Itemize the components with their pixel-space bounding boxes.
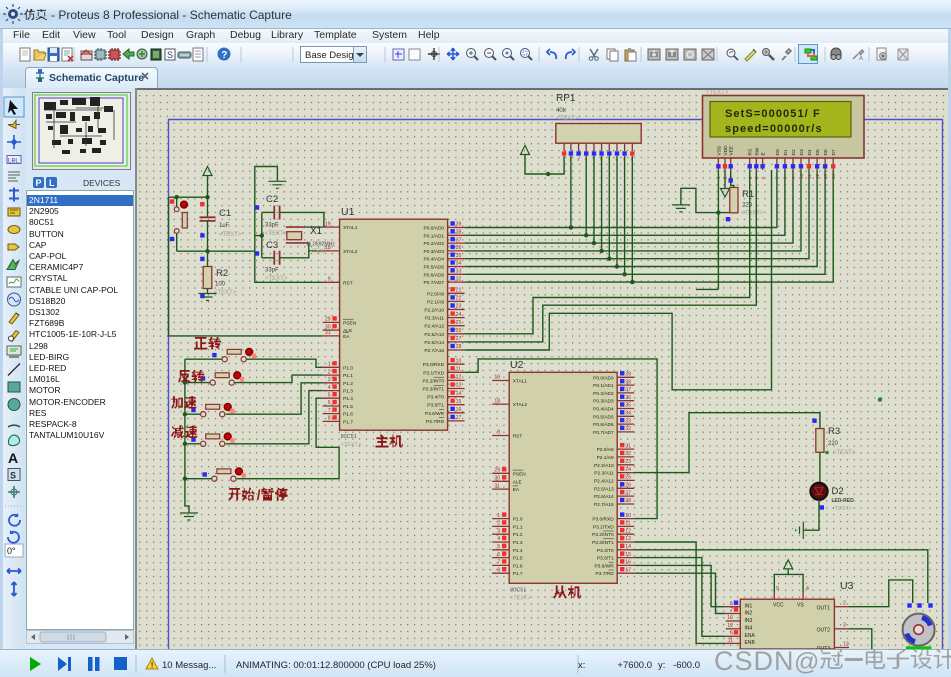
junction RP1-P0.2 <box>592 241 596 245</box>
svg-text:13: 13 <box>456 383 462 389</box>
svg-text:P0.3/AD3: P0.3/AD3 <box>424 249 445 255</box>
svg-text:<TEXT>: <TEXT> <box>741 211 764 217</box>
wire to IN2 <box>634 573 726 613</box>
wire LCD ground to R1 <box>681 188 734 212</box>
junction <box>205 249 209 253</box>
junction RP1-P0.3 <box>599 249 603 253</box>
svg-text:5: 5 <box>328 392 331 398</box>
svg-text:1: 1 <box>328 362 331 368</box>
svg-text:6: 6 <box>730 631 733 637</box>
svg-text:P0.0/AD0: P0.0/AD0 <box>593 375 614 381</box>
wire RST net <box>255 251 323 282</box>
svg-text:EA: EA <box>513 487 520 493</box>
svg-text:33: 33 <box>456 269 462 275</box>
svg-text:RS: RS <box>748 149 754 156</box>
ground (R2) <box>199 294 217 301</box>
capacitor C3 <box>274 251 279 265</box>
button KEY 正转 <box>222 357 227 362</box>
svg-text:33pF: 33pF <box>265 223 279 229</box>
wire to motor right <box>634 550 928 603</box>
svg-text:D0: D0 <box>775 149 781 155</box>
svg-text:10: 10 <box>799 173 804 179</box>
power-down terminal VDD <box>721 189 730 198</box>
wire <box>185 478 212 480</box>
svg-text:3: 3 <box>497 528 500 534</box>
U1 pins right P0 <box>448 227 465 229</box>
svg-text:PSEN: PSEN <box>343 320 357 326</box>
wire <box>185 443 201 445</box>
U3 pins right <box>834 606 849 608</box>
U3 pins left <box>726 606 741 608</box>
junction <box>183 477 187 481</box>
svg-text:28: 28 <box>625 498 631 504</box>
svg-text:A: A <box>8 450 18 466</box>
wire VEE to R1 <box>731 170 734 188</box>
svg-text:x:: x: <box>578 660 585 671</box>
svg-text:IN4: IN4 <box>745 626 753 632</box>
svg-text:P0.1/AD1: P0.1/AD1 <box>424 233 445 239</box>
button KEY 减速 <box>201 441 206 446</box>
svg-text:11: 11 <box>807 174 812 179</box>
transistor U1 pins left <box>323 226 340 228</box>
svg-text:3: 3 <box>843 623 846 629</box>
svg-text:7: 7 <box>730 608 733 614</box>
svg-text:P1.2: P1.2 <box>343 381 353 387</box>
svg-text:8: 8 <box>328 416 331 422</box>
junction <box>260 233 264 237</box>
svg-text:+7600.0: +7600.0 <box>617 660 652 671</box>
wire <box>262 257 275 259</box>
svg-text:P2.2/A10: P2.2/A10 <box>594 463 614 469</box>
wire <box>255 235 262 237</box>
svg-text:P3.6/WR: P3.6/WR <box>594 563 614 569</box>
svg-text:VDD: VDD <box>723 145 729 156</box>
svg-text:C1: C1 <box>219 208 231 219</box>
svg-text:10: 10 <box>727 615 733 621</box>
svg-text:38: 38 <box>456 230 462 236</box>
svg-text:P1.5: P1.5 <box>513 556 523 562</box>
svg-text:P1.7: P1.7 <box>343 419 353 425</box>
svg-text:P2.4/A12: P2.4/A12 <box>594 478 614 484</box>
svg-text:P3.3/INT1: P3.3/INT1 <box>422 387 444 393</box>
svg-text:P2.0/A8: P2.0/A8 <box>427 291 444 297</box>
wire RP1 pin to P0.5 <box>616 156 618 267</box>
svg-text:P1.0: P1.0 <box>343 365 353 371</box>
svg-text:6: 6 <box>328 400 331 406</box>
junction RP1-P0.0 <box>569 225 573 229</box>
svg-text:P1.0: P1.0 <box>513 517 523 523</box>
svg-text:11: 11 <box>456 367 461 373</box>
svg-text:P2.4/A12: P2.4/A12 <box>424 324 444 330</box>
wire VCC down to EA pin <box>169 197 323 336</box>
wire RST rail <box>177 250 255 252</box>
wire VSS stub left <box>696 288 719 290</box>
ground (crystal caps) <box>268 181 286 188</box>
svg-text:C3: C3 <box>266 240 278 251</box>
svg-text:32: 32 <box>456 276 462 282</box>
wire <box>176 197 178 207</box>
svg-text:P3.6/WR: P3.6/WR <box>425 411 445 417</box>
svg-text:P0.5/AD5: P0.5/AD5 <box>593 414 614 420</box>
svg-text:13: 13 <box>625 536 631 542</box>
junction <box>183 380 187 384</box>
junction RP1-P0.5 <box>615 264 619 268</box>
wire RP1 pin to P0.4 <box>608 156 610 259</box>
svg-text:P3.5/T1: P3.5/T1 <box>597 556 614 562</box>
wire RP1 pin to P0.7 <box>631 156 633 282</box>
svg-text:- Proteus 8 Professional - Sch: - Proteus 8 Professional - Schematic Cap… <box>51 8 292 22</box>
ground (buttons) <box>180 513 198 520</box>
svg-text:EA: EA <box>343 334 350 340</box>
svg-text:11.0592MHz: 11.0592MHz <box>306 242 335 248</box>
svg-text:80C51: 80C51 <box>341 434 357 440</box>
wire to P1.2 <box>226 383 323 414</box>
junction RP1-P0.7 <box>630 280 634 284</box>
svg-text:P0.4/AD4: P0.4/AD4 <box>593 407 614 413</box>
svg-text:R1: R1 <box>742 189 754 200</box>
svg-text:29: 29 <box>325 317 331 323</box>
ground (D2, rotated) <box>796 522 804 539</box>
wire to R3 <box>634 413 820 473</box>
svg-text:P1.3: P1.3 <box>513 540 523 546</box>
wire P0.6 to LCD D6 <box>465 170 825 274</box>
svg-text:<TEXT>: <TEXT> <box>556 116 579 122</box>
svg-text:P0.2/AD2: P0.2/AD2 <box>424 241 445 247</box>
svg-text:25: 25 <box>456 320 462 326</box>
svg-text:S: S <box>167 50 173 60</box>
op-amp U1 80C51 MCU body <box>340 219 448 430</box>
svg-text:PSEN: PSEN <box>513 471 527 477</box>
svg-text:11: 11 <box>728 638 733 644</box>
svg-text:<TEXT>: <TEXT> <box>832 506 852 512</box>
wire to ENB <box>634 542 726 643</box>
label 反转 <box>178 370 191 383</box>
button KEY 反转 <box>210 380 215 385</box>
svg-text:P1.6: P1.6 <box>513 563 523 569</box>
svg-text:22: 22 <box>625 451 631 457</box>
svg-text:P1.4: P1.4 <box>513 548 523 554</box>
svg-text:11: 11 <box>625 521 630 527</box>
svg-text:1: 1 <box>497 513 500 519</box>
svg-text:LED-RED: LED-RED <box>832 498 855 504</box>
svg-text:P2.3/A11: P2.3/A11 <box>425 316 445 322</box>
svg-text:LBL: LBL <box>8 159 19 165</box>
crystal X1 <box>286 227 309 243</box>
svg-text:4: 4 <box>806 586 809 592</box>
svg-text:ANIMATING: 00:01:12.800000 (CP: ANIMATING: 00:01:12.800000 (CPU load 25%… <box>236 660 436 671</box>
svg-text:S: S <box>10 471 16 481</box>
svg-text:2: 2 <box>328 369 331 375</box>
svg-text:13: 13 <box>823 173 828 179</box>
svg-text:39: 39 <box>625 372 631 378</box>
wire RP1 pin to P0.6 <box>624 156 626 274</box>
svg-text:P2.7/A15: P2.7/A15 <box>594 502 614 508</box>
svg-text:?: ? <box>221 50 227 61</box>
svg-text:D2: D2 <box>832 486 844 497</box>
wire to P1.1 <box>235 375 323 383</box>
resistor R3 <box>816 429 824 453</box>
wire cap ground <box>255 167 278 252</box>
svg-text:16: 16 <box>456 407 462 413</box>
svg-text:4: 4 <box>328 385 331 391</box>
wire <box>207 221 209 251</box>
svg-text:6: 6 <box>497 552 500 558</box>
svg-text:3: 3 <box>328 377 331 383</box>
svg-text:33: 33 <box>625 418 631 424</box>
svg-text:P2.2/A10: P2.2/A10 <box>424 308 444 314</box>
svg-text:7: 7 <box>497 560 500 566</box>
svg-text:2: 2 <box>843 601 846 607</box>
wire C2-C3 common <box>261 212 263 257</box>
wire VCC rail <box>169 196 208 198</box>
svg-text:21: 21 <box>456 288 462 294</box>
junction <box>175 195 179 199</box>
wire P2.5 to LCD RS <box>465 170 750 334</box>
svg-text:P0.1/AD1: P0.1/AD1 <box>593 383 614 389</box>
svg-text:D5: D5 <box>815 149 821 155</box>
svg-text:SetS=000051/ F: SetS=000051/ F <box>725 108 821 120</box>
svg-text:P3.3/INT1: P3.3/INT1 <box>592 540 614 546</box>
svg-text:RP1: RP1 <box>556 93 576 104</box>
svg-text:VSS: VSS <box>716 146 722 156</box>
svg-text:31: 31 <box>325 330 331 336</box>
svg-text:27: 27 <box>625 490 631 496</box>
svg-text:VS: VS <box>797 603 804 609</box>
svg-text:<TEXT>: <TEXT> <box>510 595 530 601</box>
svg-text:24: 24 <box>625 467 631 473</box>
wire <box>185 382 210 384</box>
button KEY 加速 <box>201 412 206 417</box>
capacitor C2 <box>274 206 279 220</box>
svg-text:P2.5/A13: P2.5/A13 <box>594 486 614 492</box>
svg-text:P3.1/TXD: P3.1/TXD <box>423 370 444 376</box>
resistor pack RP1 RESPACK-8 <box>556 124 641 144</box>
svg-text:VEE: VEE <box>729 146 735 156</box>
svg-text:OUT1: OUT1 <box>817 606 831 612</box>
svg-text:D6: D6 <box>823 149 829 155</box>
svg-text:220: 220 <box>828 441 839 447</box>
svg-text:P2.6/A14: P2.6/A14 <box>424 340 444 346</box>
svg-text:14: 14 <box>831 173 836 179</box>
wire RP1 pin to P0.2 <box>593 156 595 243</box>
svg-text:ENB: ENB <box>745 640 756 646</box>
svg-text:P0.7/AD7: P0.7/AD7 <box>593 430 614 436</box>
svg-text:22: 22 <box>456 296 462 302</box>
svg-text:7: 7 <box>328 408 331 414</box>
svg-text:@: @ <box>794 648 819 676</box>
U2 pins right P2 <box>617 448 634 450</box>
svg-text:XTAL2: XTAL2 <box>513 402 528 408</box>
svg-text:27: 27 <box>456 336 462 342</box>
svg-text:XTAL1: XTAL1 <box>343 225 358 231</box>
svg-text:P3.7/RD: P3.7/RD <box>426 419 445 425</box>
svg-text:E: E <box>761 152 767 155</box>
svg-text:XTAL2: XTAL2 <box>343 249 358 255</box>
svg-text:P: P <box>36 178 42 188</box>
U2 pins left <box>492 380 509 382</box>
wire <box>185 413 201 415</box>
svg-text:37: 37 <box>625 387 631 393</box>
svg-text:Schematic Capture: Schematic Capture <box>49 72 144 84</box>
wire button common bus <box>184 359 186 479</box>
wire to P1.0 <box>247 359 323 367</box>
svg-text:220: 220 <box>742 203 753 209</box>
svg-text:35: 35 <box>456 253 462 259</box>
wire TXD-RXD <box>465 359 657 519</box>
svg-text:<TEXT>: <TEXT> <box>833 450 856 456</box>
wire to P1.3 <box>226 391 323 444</box>
svg-text:P1.3: P1.3 <box>343 389 353 395</box>
wire to P1.4 <box>237 398 339 479</box>
svg-text:15: 15 <box>625 552 631 558</box>
wire VSS <box>717 170 719 289</box>
svg-text:33pF: 33pF <box>265 268 279 274</box>
label 加速 <box>171 396 183 409</box>
wire <box>207 176 209 198</box>
label 从机 <box>553 586 567 599</box>
wire to IN1 <box>634 565 726 606</box>
svg-text:13: 13 <box>843 641 849 647</box>
svg-text:<TEXT>: <TEXT> <box>341 442 361 448</box>
svg-text:14: 14 <box>456 391 462 397</box>
svg-text:10 Messag...: 10 Messag... <box>162 660 216 671</box>
LED D2 LED-RED <box>810 483 827 500</box>
svg-text:P2.0/A8: P2.0/A8 <box>597 447 614 453</box>
svg-text:CSDN: CSDN <box>714 646 795 676</box>
junction VSS-ground <box>716 210 720 214</box>
svg-text:ENA: ENA <box>745 633 756 639</box>
svg-text:OUT3: OUT3 <box>817 646 831 649</box>
svg-text:P3.2/INT0: P3.2/INT0 <box>592 532 614 538</box>
stray junction dot <box>878 397 882 401</box>
svg-text:31: 31 <box>494 483 500 489</box>
svg-text:P1.4: P1.4 <box>343 396 353 402</box>
svg-text:XTAL1: XTAL1 <box>513 379 528 385</box>
svg-text:P0.2/AD2: P0.2/AD2 <box>593 391 614 397</box>
svg-text:36: 36 <box>456 245 462 251</box>
svg-text:34: 34 <box>456 261 462 267</box>
wire U3 VCC rail <box>774 574 803 592</box>
svg-text:4: 4 <box>497 536 500 542</box>
svg-text:P1.6: P1.6 <box>343 412 353 418</box>
svg-text:ALE: ALE <box>513 479 522 485</box>
svg-text:25: 25 <box>625 475 631 481</box>
wire P2.6 to LCD RW <box>465 170 757 342</box>
svg-text:9: 9 <box>776 586 779 592</box>
svg-text:P0.4/AD4: P0.4/AD4 <box>424 257 445 263</box>
U2 pins right P3 <box>617 518 634 520</box>
svg-text:24: 24 <box>456 312 462 318</box>
svg-text:P1.1: P1.1 <box>513 524 523 530</box>
wire P0.0 to LCD D0 <box>465 170 777 228</box>
svg-text:19: 19 <box>325 221 331 227</box>
svg-text:IN3: IN3 <box>745 618 753 624</box>
svg-text:36: 36 <box>625 395 631 401</box>
junction RP1-P0.1 <box>584 233 588 237</box>
power terminal VCC (RP1) <box>521 146 530 155</box>
svg-text:P2.5/A13: P2.5/A13 <box>424 332 444 338</box>
svg-text:23: 23 <box>625 459 631 465</box>
svg-text:P3.5/T1: P3.5/T1 <box>427 403 444 409</box>
wire P0.4 to LCD D4 <box>465 170 809 259</box>
wire R3 to D2 <box>819 452 821 483</box>
wire P0.5 to LCD D5 <box>465 170 817 267</box>
svg-text:9: 9 <box>497 430 500 436</box>
svg-text:17: 17 <box>625 567 631 573</box>
svg-text:32: 32 <box>625 426 631 432</box>
svg-text:P1.7: P1.7 <box>513 571 523 577</box>
svg-text:P3.1/TXD: P3.1/TXD <box>593 524 614 530</box>
svg-text:100: 100 <box>215 282 226 288</box>
U1 pins right P3 <box>448 363 465 365</box>
svg-text:P2.6/A14: P2.6/A14 <box>594 494 614 500</box>
svg-text:IN2: IN2 <box>745 610 753 616</box>
svg-text:!: ! <box>151 661 154 670</box>
motor M (MOTOR-ENCODER) <box>903 614 935 646</box>
svg-text:P2.1/A9: P2.1/A9 <box>427 299 444 305</box>
svg-text:DEVICES: DEVICES <box>83 178 121 188</box>
wire <box>207 251 209 266</box>
junction <box>546 172 550 176</box>
wire <box>185 358 222 360</box>
svg-text:29: 29 <box>494 468 500 474</box>
svg-text:C2: C2 <box>266 194 278 205</box>
wire <box>724 170 726 189</box>
svg-text:P0.0/AD0: P0.0/AD0 <box>424 226 445 232</box>
svg-text:19: 19 <box>494 375 500 381</box>
svg-text:P0.7/AD7: P0.7/AD7 <box>424 280 445 286</box>
wire bus to ground <box>185 479 189 513</box>
button KEY 开始/暂停 <box>212 476 217 481</box>
svg-text:OUT2: OUT2 <box>817 628 831 634</box>
svg-text:40k: 40k <box>556 108 567 114</box>
wire P0.1 to LCD D1 <box>465 170 785 235</box>
svg-text:35: 35 <box>625 403 631 409</box>
svg-text:P1.5: P1.5 <box>343 404 353 410</box>
svg-text:30: 30 <box>494 476 500 482</box>
svg-text:<TEXT>: <TEXT> <box>265 231 288 237</box>
wire <box>787 569 789 575</box>
svg-text:P1.1: P1.1 <box>343 373 353 379</box>
svg-text:R2: R2 <box>216 268 228 279</box>
svg-text:RST: RST <box>513 434 523 440</box>
svg-text:10: 10 <box>625 513 631 519</box>
junction RP1-P0.4 <box>607 257 611 261</box>
wire P0.2 to LCD D2 <box>465 170 793 243</box>
svg-text:28: 28 <box>456 344 462 350</box>
wire to ENA <box>634 558 726 637</box>
sheet border <box>169 120 943 650</box>
label 正转 <box>194 337 207 350</box>
svg-text:14: 14 <box>625 544 631 550</box>
svg-text:P3.0/RXD: P3.0/RXD <box>592 517 614 523</box>
svg-text:U2: U2 <box>510 359 524 371</box>
svg-text:IN1: IN1 <box>745 604 753 610</box>
svg-text:P3.4/T0: P3.4/T0 <box>597 548 614 554</box>
svg-text:34: 34 <box>625 411 631 417</box>
svg-text:80C51: 80C51 <box>510 587 526 593</box>
svg-text:2: 2 <box>497 521 500 527</box>
svg-text:P1.2: P1.2 <box>513 532 523 538</box>
svg-text:0°: 0° <box>7 546 16 556</box>
wire <box>176 233 178 251</box>
svg-text:P3.7/RD: P3.7/RD <box>596 571 615 577</box>
svg-text:U1: U1 <box>341 206 355 218</box>
wire <box>207 289 209 294</box>
svg-text:R3: R3 <box>828 426 840 437</box>
svg-text:8: 8 <box>497 567 500 573</box>
op-amp U2 80C51 MCU body <box>509 372 617 583</box>
